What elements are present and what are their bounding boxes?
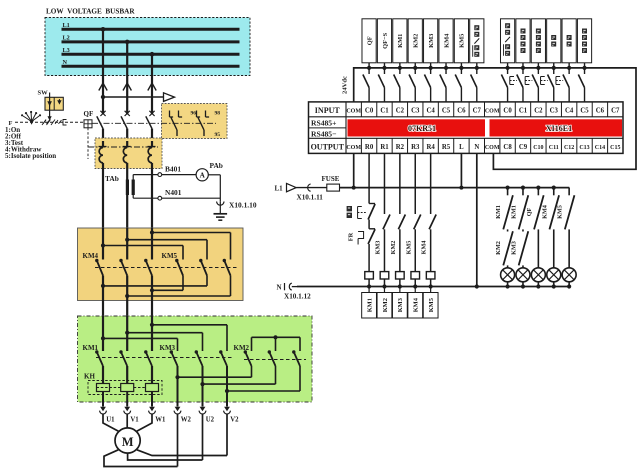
KM4 pole 3 — [144, 228, 152, 316]
label FUSE — [322, 175, 340, 183]
input tag stop — [547, 19, 561, 63]
busbar title — [46, 8, 135, 16]
coil KM1 — [365, 272, 374, 293]
label 96 — [191, 111, 197, 117]
RS485 red module 07KR51 — [348, 119, 486, 136]
linkage hatch marks — [42, 120, 55, 126]
svg-text:COM: COM — [485, 145, 500, 151]
svg-text:C4: C4 — [565, 108, 574, 115]
wire R0 drop — [368, 153, 370, 203]
svg-text:V1: V1 — [130, 417, 139, 424]
wire U1 — [103, 414, 119, 432]
svg-text:QF−S: QF−S — [382, 32, 389, 49]
wire input KM1 — [394, 63, 402, 102]
label RS485+ — [311, 119, 336, 128]
svg-text:R1: R1 — [380, 144, 389, 151]
KM5 pole 1 — [175, 259, 183, 276]
lamp circuit 3 (QF) — [526, 186, 546, 289]
KM3 pole 1 — [170, 350, 178, 406]
svg-text:B401: B401 — [165, 165, 181, 174]
svg-text:COM: COM — [346, 145, 361, 151]
svg-text:R0: R0 — [365, 144, 374, 151]
svg-text:U1: U1 — [106, 417, 115, 424]
wire KM3 feed 1 — [101, 336, 178, 351]
label XI16E1 — [546, 124, 572, 133]
interlock contact KM5 — [405, 241, 412, 255]
QF pole 1 — [97, 111, 106, 141]
svg-text:N: N — [63, 59, 68, 66]
KM1 pole 3 — [144, 316, 152, 384]
label KM1 — [83, 344, 99, 352]
ground — [214, 214, 228, 220]
wire phase L1 drop — [102, 29, 104, 114]
svg-text:C3: C3 — [550, 108, 559, 115]
wire position dashed line — [15, 121, 84, 123]
lamp circuit 2 (KM1) — [510, 186, 530, 289]
svg-text:C9: C9 — [519, 144, 528, 151]
wire motor right loop — [137, 450, 227, 456]
coil KM2 — [380, 272, 389, 293]
arrow L1 supply — [287, 183, 297, 191]
switch SW — [45, 93, 63, 121]
label V1 — [130, 417, 139, 424]
svg-text:INPUT: INPUT — [315, 106, 341, 115]
wire KH out 2 — [126, 392, 128, 407]
interlock contact KM2 — [390, 241, 397, 255]
wire phase L3 drop — [151, 54, 153, 114]
svg-text:C4: C4 — [426, 108, 435, 115]
wire N bus — [297, 286, 569, 288]
svg-text:R3: R3 — [411, 144, 420, 151]
terminal W1 — [149, 407, 156, 414]
KM4 pole 2 — [119, 228, 127, 316]
KM1 KM3 KM2 box — [78, 316, 313, 402]
wire input KM4 — [440, 63, 448, 102]
label RS485- — [311, 130, 336, 139]
arrow right control supply — [164, 93, 175, 102]
svg-text:KM3: KM3 — [510, 241, 517, 255]
svg-text:C12: C12 — [564, 145, 574, 151]
KM5 pole 2 — [199, 259, 207, 276]
svg-text:C6: C6 — [596, 108, 605, 115]
lamp circuit 5 (KM5) — [557, 188, 577, 289]
svg-text:KM4: KM4 — [421, 241, 428, 255]
CT TAb phase 2 — [123, 141, 131, 228]
input tag QF — [362, 19, 376, 63]
busbar L3 — [62, 53, 240, 56]
svg-text:KM5: KM5 — [162, 252, 178, 260]
pushbutton rev-start — [525, 63, 540, 102]
svg-text:U2: U2 — [206, 417, 215, 424]
svg-text:KM5: KM5 — [459, 34, 466, 48]
input tag fwd-start — [516, 19, 530, 63]
svg-text:KM5: KM5 — [405, 241, 412, 255]
position legend text — [5, 126, 56, 160]
wire N401 — [133, 195, 220, 200]
KM3 pole 3 — [219, 350, 227, 406]
label L1 supply — [275, 185, 284, 193]
svg-text:KM4: KM4 — [443, 33, 450, 48]
wire KM5 out 2 — [101, 276, 207, 289]
svg-text:KM3: KM3 — [428, 34, 435, 48]
svg-text:C0: C0 — [365, 108, 374, 115]
busbar label L2 — [63, 35, 70, 42]
QF pole 3 — [146, 111, 155, 141]
svg-text:L2: L2 — [63, 35, 70, 42]
node phase L3 tap — [150, 52, 155, 57]
terminal U2 — [199, 407, 206, 414]
svg-text:C1: C1 — [519, 108, 528, 115]
wire V2 — [226, 414, 228, 456]
busbar label L1 — [63, 22, 70, 29]
label INPUT — [315, 106, 341, 115]
label U1 — [106, 417, 115, 424]
svg-text:KM3: KM3 — [160, 344, 176, 352]
wire V1 — [126, 414, 128, 428]
svg-text:KM2: KM2 — [234, 344, 250, 352]
wire R2 drop — [398, 153, 405, 271]
svg-text:R5: R5 — [442, 144, 451, 151]
terminal W2 — [174, 407, 181, 414]
svg-text:W1: W1 — [155, 417, 166, 424]
svg-text:KM2: KM2 — [382, 298, 389, 312]
input tag KM3 — [424, 19, 438, 63]
label 07KR51 — [408, 124, 436, 133]
wire phase L2 drop — [126, 42, 128, 115]
QF aux contact box — [162, 104, 228, 139]
svg-text:KM4: KM4 — [413, 297, 420, 312]
KM3 pole 2 — [195, 350, 203, 406]
KM4 pole 1 — [95, 228, 103, 316]
svg-text:C8: C8 — [503, 144, 512, 151]
interlock contact KM4 — [421, 241, 428, 255]
pushbutton fwd-start — [510, 63, 525, 102]
svg-text:95: 95 — [215, 132, 221, 138]
QF aux contact 98 — [197, 111, 210, 137]
wire R4 drop — [429, 153, 436, 271]
input tag KM2 — [408, 19, 422, 63]
KM2 star bus — [252, 335, 301, 351]
svg-text:C2: C2 — [396, 108, 405, 115]
pushbutton motor-fault — [578, 63, 586, 102]
svg-text:KM4: KM4 — [83, 252, 99, 260]
label X10.1.10 — [229, 201, 257, 210]
svg-text:C0: C0 — [503, 108, 512, 115]
wire input manual-auto — [471, 63, 479, 102]
svg-text:L: L — [459, 144, 464, 151]
busbar label N — [63, 59, 68, 66]
KM1 KM3 dashed link — [96, 357, 233, 359]
RS485 red module XI16E1 — [490, 119, 623, 136]
KM1 pole 1 — [95, 316, 103, 384]
wire motor left loop — [104, 450, 178, 467]
svg-text:KM5: KM5 — [428, 298, 435, 312]
label FR — [348, 232, 355, 241]
wire L bus — [340, 186, 570, 190]
svg-text:N401: N401 — [165, 188, 182, 197]
coil tag KM2 — [377, 293, 392, 319]
fuse FUSE — [327, 184, 340, 191]
wire input KM2 — [409, 63, 417, 102]
coil tag KM5 — [423, 293, 438, 319]
input tag KM5 — [454, 19, 468, 63]
label SW — [38, 90, 49, 97]
svg-text:M: M — [122, 435, 134, 449]
pushbutton fwd-rev — [501, 63, 509, 102]
node phase L2 tap — [125, 40, 130, 45]
interlock contact KM3 — [374, 241, 381, 255]
svg-text:C1: C1 — [380, 108, 389, 115]
wire meter to ground — [208, 175, 220, 202]
QF mechanical dash-dot link — [92, 122, 216, 124]
label OUTPUT — [311, 143, 345, 152]
label QF — [84, 110, 94, 118]
wire KM5 feed 2 — [125, 238, 207, 260]
svg-text:TAb: TAb — [105, 174, 119, 183]
wire R1 drop — [383, 153, 390, 271]
wire input QF-S — [378, 63, 386, 102]
svg-text:RS485−: RS485− — [311, 130, 336, 139]
svg-text:KM2: KM2 — [413, 34, 420, 48]
label W1 — [155, 417, 166, 424]
busbar L2 — [62, 40, 240, 43]
pushbutton stop — [541, 63, 556, 102]
label B401 — [165, 165, 181, 174]
svg-text:KM4: KM4 — [541, 205, 548, 219]
QF crossed-square symbol — [84, 120, 92, 128]
ammeter PAb — [196, 169, 208, 181]
svg-text:C7: C7 — [473, 108, 482, 115]
input tag rev-start — [531, 19, 545, 63]
svg-text:L3: L3 — [63, 47, 70, 54]
wire KM5 out 3 — [125, 276, 230, 299]
svg-text:N: N — [277, 284, 282, 292]
svg-text:X10.1.10: X10.1.10 — [229, 201, 257, 210]
terminal U1 — [100, 407, 107, 414]
svg-text:5:Isolate position: 5:Isolate position — [5, 152, 56, 160]
wire KM3 feed 3 — [150, 323, 227, 351]
svg-text:C14: C14 — [595, 145, 605, 151]
svg-text:KM2: KM2 — [390, 241, 397, 255]
QF CT dash-dot link — [88, 146, 158, 148]
svg-text:X10.1.12: X10.1.12 — [284, 292, 311, 300]
busbar enclosure — [45, 18, 250, 76]
label KM3 — [160, 344, 176, 352]
svg-text:COM: COM — [485, 109, 500, 115]
busbar N — [62, 65, 240, 68]
svg-text:C15: C15 — [610, 145, 620, 151]
KM4 KM5 box — [78, 228, 244, 301]
label 98 — [215, 111, 221, 117]
label V2 — [230, 417, 239, 424]
svg-text:98: 98 — [215, 111, 221, 117]
PLC terminal table grid — [309, 102, 624, 153]
svg-text:C5: C5 — [442, 108, 451, 115]
svg-text:X10.1.11: X10.1.11 — [297, 193, 324, 201]
input tag KM1 — [393, 19, 407, 63]
wire B401 — [133, 173, 196, 180]
wire R3 drop — [414, 153, 421, 271]
svg-text:C13: C13 — [579, 145, 589, 151]
label F — [9, 120, 13, 127]
label TAb — [105, 174, 119, 183]
svg-text:KH: KH — [84, 373, 95, 381]
label KM4 — [83, 252, 99, 260]
input tag motor-fault — [577, 19, 591, 63]
svg-text:07KR51: 07KR51 — [408, 124, 436, 133]
svg-text:KM1: KM1 — [397, 34, 404, 48]
OUTPUT terminal labels — [346, 144, 620, 151]
svg-text:QF: QF — [366, 36, 373, 45]
wire N drop — [475, 153, 479, 288]
coil KM4 — [411, 272, 420, 293]
label KH — [84, 373, 95, 381]
wire KM5 out 1 — [150, 276, 183, 293]
svg-text:C10: C10 — [533, 145, 543, 151]
KM2 pole 3 — [292, 350, 300, 366]
wire COM drop — [353, 153, 355, 187]
INPUT terminal labels — [346, 108, 620, 115]
wire KM2 out 1 — [175, 366, 251, 379]
label 95 — [215, 132, 221, 138]
wire input KM5 — [455, 63, 463, 102]
coil KM5 — [426, 272, 435, 293]
svg-text:96: 96 — [191, 111, 197, 117]
CT TAb phase 1 — [99, 141, 107, 228]
arrow up phase 2 — [123, 83, 131, 91]
svg-text:PAb: PAb — [210, 161, 223, 170]
QF aux contact 96 — [170, 111, 183, 137]
svg-text:W2: W2 — [181, 417, 192, 424]
svg-text:KM1: KM1 — [510, 205, 517, 219]
wire R0 to coil — [368, 244, 370, 272]
svg-text:24Vdc: 24Vdc — [342, 76, 349, 94]
svg-text:XI16E1: XI16E1 — [546, 124, 572, 133]
svg-text:L1: L1 — [63, 22, 70, 29]
wire input QF — [363, 63, 371, 102]
wire input KM3 — [424, 63, 432, 102]
svg-text:N: N — [474, 144, 479, 151]
label KM2 — [234, 344, 250, 352]
coil KM3 — [396, 272, 405, 293]
emergency stop contact — [347, 204, 375, 220]
24Vdc bus — [354, 68, 636, 169]
svg-text:R4: R4 — [426, 144, 435, 151]
wire KM2 out 3 — [225, 366, 300, 393]
label N supply — [277, 284, 282, 292]
SW coupling ticks — [43, 120, 62, 124]
svg-text:KM5: KM5 — [557, 205, 564, 219]
coil tag KM1 — [362, 293, 377, 319]
CT TAb phase 3 — [148, 141, 156, 228]
thermal contact FR — [358, 229, 375, 245]
input tag KM4 — [439, 19, 453, 63]
svg-text:FUSE: FUSE — [322, 175, 340, 183]
KM2 pole 2 — [268, 350, 276, 366]
svg-text:OUTPUT: OUTPUT — [311, 143, 345, 152]
svg-text:C5: C5 — [580, 108, 589, 115]
busbar label L3 — [63, 47, 70, 54]
svg-text:C2: C2 — [534, 108, 543, 115]
KM5 pole 3 — [223, 259, 231, 276]
CT box — [95, 138, 162, 169]
wire motor bottom loop — [128, 453, 203, 460]
input tag fwd-rev — [500, 19, 514, 63]
input tag manual-auto — [470, 19, 484, 63]
svg-text:LOW VOLTAGE BUSBAR: LOW VOLTAGE BUSBAR — [46, 8, 135, 16]
svg-text:COM: COM — [346, 109, 361, 115]
wire KM5 feed 1 — [101, 243, 183, 259]
svg-text:A: A — [200, 172, 206, 180]
svg-text:QF: QF — [526, 207, 533, 216]
svg-text:QF: QF — [84, 110, 94, 118]
svg-text:L1: L1 — [275, 185, 284, 193]
label 24Vdc — [342, 76, 349, 94]
svg-text:FR: FR — [348, 232, 355, 241]
wire branch to control supply — [101, 95, 163, 99]
wire R0 mid — [368, 220, 370, 229]
svg-text:R2: R2 — [396, 144, 405, 151]
KM2 pole 1 — [244, 350, 252, 366]
svg-text:KM1: KM1 — [366, 298, 373, 312]
thermal relay KH — [88, 381, 162, 395]
label X10.1.12 — [284, 292, 311, 300]
QF pole 2 — [121, 111, 130, 141]
wire W2 — [177, 414, 179, 467]
wire U2 — [202, 414, 204, 460]
wire KM2 out 2 — [200, 366, 275, 386]
connector X10.1.11 — [296, 184, 327, 191]
svg-text:C7: C7 — [611, 108, 620, 115]
terminal V1 — [124, 407, 131, 414]
KM2 dashed link — [244, 359, 306, 361]
label N401 — [165, 188, 182, 197]
lamp circuit 4 (KM4) — [541, 186, 561, 289]
svg-text:C11: C11 — [549, 145, 559, 151]
wire L drop — [460, 153, 462, 187]
coil tag KM4 — [408, 293, 423, 319]
wire KM3 feed 2 — [125, 331, 202, 351]
lamp circuit 1 (KM1) — [495, 186, 515, 289]
svg-text:KM1: KM1 — [495, 205, 502, 219]
svg-text:SW: SW — [38, 90, 49, 97]
bracket on position line — [63, 120, 67, 126]
arrow up phase 3 — [148, 83, 156, 91]
node phase L1 tap — [101, 27, 106, 32]
QF dashed drop — [87, 128, 89, 159]
coil tag KM3 — [392, 293, 407, 319]
svg-text:KM3: KM3 — [374, 241, 381, 255]
input tag reset — [562, 19, 576, 63]
KM4 KM5 dashed link — [95, 267, 237, 269]
wire KH out 3 — [151, 392, 153, 407]
connector X10.1.12 — [285, 283, 298, 290]
terminal V2 — [224, 407, 231, 414]
label U2 — [206, 417, 215, 424]
svg-text:C3: C3 — [411, 108, 420, 115]
CT secondary bars — [126, 180, 135, 196]
label X10.1.11 — [297, 193, 324, 201]
position fan symbol — [21, 111, 41, 125]
KM1 pole 2 — [119, 316, 127, 384]
wire W1 — [137, 414, 152, 432]
motor M — [115, 428, 140, 453]
svg-text:KM3: KM3 — [397, 298, 404, 312]
svg-text:C6: C6 — [457, 108, 466, 115]
label PAb — [210, 161, 223, 170]
input tag QF-S — [377, 19, 391, 63]
pushbutton reset — [556, 63, 571, 102]
